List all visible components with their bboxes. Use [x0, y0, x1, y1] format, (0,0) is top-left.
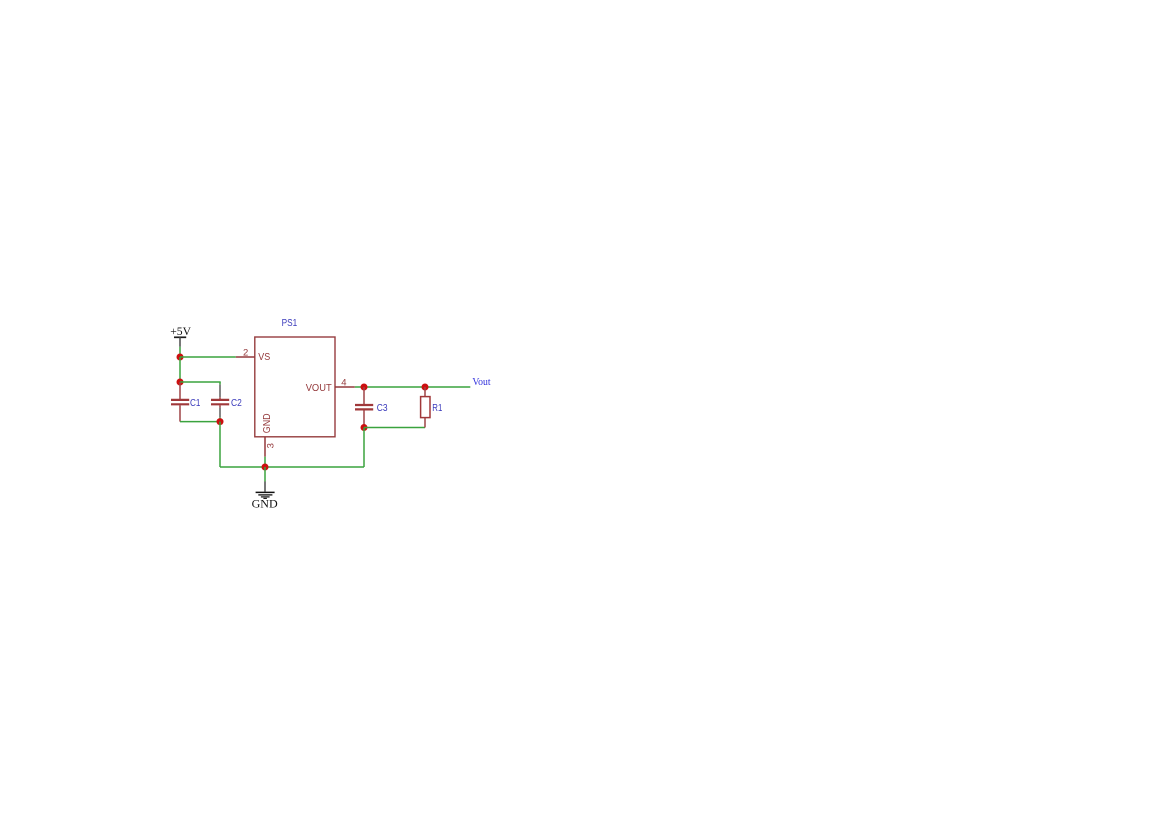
ground: [252, 482, 278, 511]
wire node D to ground symbol: [264, 467, 266, 482]
wire node C down to ground rail: [219, 422, 221, 467]
pin 4 VOUT: [306, 377, 355, 394]
wire ground rail horizontal: [220, 466, 364, 468]
node E junction (C3 top): [361, 384, 368, 391]
wire node A down to node B: [179, 357, 181, 382]
node G junction (C3 bottom): [361, 424, 368, 431]
node B junction: [177, 379, 184, 386]
capacitor C2: [211, 382, 242, 422]
svg-text:VOUT: VOUT: [306, 382, 333, 394]
node A junction: [177, 354, 184, 361]
power symbol +5V: [170, 324, 191, 347]
svg-text:4: 4: [341, 377, 346, 388]
capacitor C3: [355, 387, 388, 428]
svg-text:C1: C1: [190, 397, 201, 409]
wire +5V to node A: [179, 347, 181, 357]
wire node A to pin 2: [180, 356, 236, 358]
svg-text:R1: R1: [432, 402, 442, 414]
node F junction (R1 top): [422, 384, 429, 391]
svg-text:2: 2: [243, 347, 248, 358]
svg-text:GND: GND: [261, 413, 273, 433]
svg-text:VS: VS: [258, 351, 270, 363]
svg-text:C3: C3: [377, 402, 388, 414]
svg-text:Vout: Vout: [472, 377, 490, 388]
svg-text:C2: C2: [231, 397, 242, 409]
IC PS1 body: [255, 317, 335, 437]
wire C1 bottom to node C: [180, 421, 220, 423]
wire pin 4 net: [355, 386, 471, 388]
wire node G down to ground rail: [363, 428, 365, 468]
svg-text:3: 3: [266, 443, 277, 448]
capacitor C1: [171, 382, 201, 422]
svg-text:+5V: +5V: [170, 324, 191, 338]
pin 2 VS: [236, 347, 270, 363]
pin 3 GND: [261, 413, 276, 457]
svg-text:GND: GND: [252, 497, 278, 511]
svg-text:PS1: PS1: [282, 317, 298, 329]
wire node B to C2 top: [180, 381, 221, 383]
resistor R1: [421, 387, 443, 428]
wire pin 3 to ground rail: [264, 457, 266, 467]
node D ground junction: [262, 464, 269, 471]
wire C3 bottom to R1 bottom: [364, 427, 425, 429]
node C junction: [217, 418, 224, 425]
